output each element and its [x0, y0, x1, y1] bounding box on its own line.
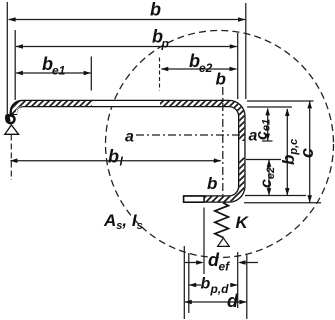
support axis line below pin: [10, 135, 12, 181]
tick be2: [159, 58, 161, 91]
bottom extension line lip end: [183, 246, 185, 319]
section line a-a: [136, 134, 248, 136]
section line b-b: [222, 87, 224, 195]
svg-text:K: K: [236, 213, 250, 232]
dimension bpc: [286, 109, 288, 195]
dimension be2: [161, 68, 236, 70]
spring K: [215, 203, 229, 238]
right horizontal extension lip bottom: [244, 202, 321, 204]
svg-text:b: b: [150, 0, 161, 20]
pin support: [5, 125, 19, 134]
svg-text:e1: e1: [52, 64, 66, 78]
lip free end outline: [184, 196, 205, 202]
extension line right bp: [237, 33, 239, 99]
right horizontal extension lip top: [245, 195, 306, 197]
svg-text:d: d: [227, 291, 239, 311]
bottom extension line web outer: [246, 255, 248, 319]
dimension d: [185, 301, 247, 303]
tick ce2 top: [246, 159, 281, 161]
svg-text:b: b: [216, 70, 226, 89]
right horizontal extension c top: [247, 100, 314, 102]
bottom extension line bpd left: [188, 253, 190, 313]
curl ring at web junction: [7, 115, 15, 123]
dimension bpd: [189, 284, 201, 286]
spring support triangle: [218, 238, 230, 246]
dashed instability circle: [106, 31, 334, 258]
svg-text:b: b: [201, 276, 211, 293]
svg-text:b: b: [207, 174, 217, 193]
curl blob: [5, 114, 11, 123]
extension line left bp: [14, 30, 16, 100]
profile band silhouette: [13, 104, 241, 200]
svg-text:b: b: [108, 147, 119, 167]
right horizontal extension bpc top: [247, 106, 292, 108]
svg-text:a: a: [125, 129, 134, 146]
bottom extension line def left: [203, 208, 205, 275]
svg-text:e2: e2: [199, 61, 213, 75]
dimension b: [9, 19, 245, 21]
svg-text:c: c: [297, 148, 317, 158]
dimension b1: [10, 160, 220, 162]
dimension ce2: [268, 160, 270, 195]
extension line left b: [6, 2, 8, 114]
tick be1: [90, 57, 92, 91]
bottom extension line web inner: [237, 252, 239, 308]
hatching of effective parts: [13, 104, 241, 200]
dimension bp: [16, 46, 237, 48]
svg-text:p: p: [161, 37, 169, 51]
dimension def: [185, 262, 202, 264]
dimension ce1: [267, 109, 269, 141]
dimension be1: [16, 72, 91, 74]
extension line right b: [245, 3, 247, 99]
dimension c: [309, 102, 311, 203]
svg-text:ef: ef: [219, 260, 231, 274]
